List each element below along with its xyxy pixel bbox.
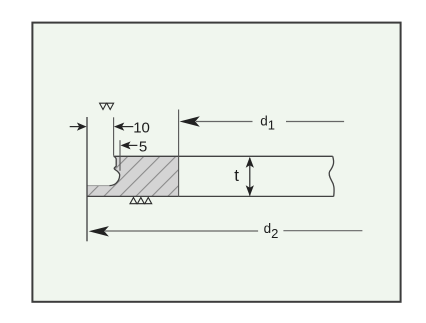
dimension line d2: [89, 226, 363, 236]
svg-text:5: 5: [139, 139, 147, 156]
dimension arrow 5: [121, 141, 138, 149]
shoulder profile outline (corner, neck, fillet): [110, 156, 120, 185]
surface finish mark (two triangles, machined): [100, 103, 114, 109]
extension line for 5: [119, 140, 121, 171]
break line (wavy): [329, 156, 334, 196]
step line (d2 surface): [87, 185, 110, 187]
hatch lines: [87, 156, 179, 196]
extension line for 10: [113, 117, 115, 155]
surface finish mark (three triangles, ground): [130, 198, 152, 204]
thickness arrow t: [246, 157, 254, 196]
flange cross-section (hatched): [87, 156, 179, 196]
dimension line d1: [180, 116, 345, 126]
bottom edge of shaft: [87, 195, 334, 197]
extension line for d1 / hatch right edge: [178, 110, 180, 198]
svg-text:10: 10: [133, 119, 150, 136]
top edge of shaft: [114, 155, 333, 157]
svg-text:t: t: [234, 166, 239, 185]
dimension arrow 10: [114, 123, 133, 131]
arrow pointing right at left reference: [70, 123, 87, 131]
extension line left (d2 / groove reference): [86, 117, 88, 241]
border frame: [32, 23, 400, 302]
